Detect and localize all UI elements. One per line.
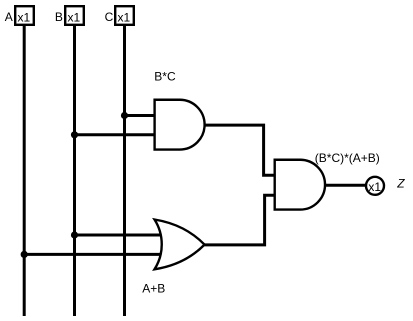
junction dot on wire B (OR) <box>71 231 78 238</box>
wire A vertical <box>23 26 26 317</box>
AND gate U3 <box>275 160 325 210</box>
wire C to AND1 top input <box>125 114 156 117</box>
wire U3 output to terminal Z <box>325 184 366 187</box>
input terminal C (x1 box) <box>115 6 134 25</box>
wire B to AND1 bottom input <box>75 133 156 136</box>
svg-text:(B*C)*(A+B): (B*C)*(A+B) <box>315 151 380 165</box>
wire B to OR top input <box>75 234 164 237</box>
OR gate U2 (A+B) <box>155 220 205 270</box>
AND gate U1 (B*C) <box>155 100 205 150</box>
wire AND1 output to U3 top input <box>205 125 275 175</box>
svg-text:Z: Z <box>396 176 405 190</box>
wire A to OR bottom input <box>24 253 163 256</box>
wire C vertical <box>123 26 126 317</box>
svg-text:B: B <box>55 10 63 24</box>
junction dot on wire A (OR) <box>21 251 28 258</box>
svg-text:A: A <box>5 10 13 24</box>
svg-text:x1: x1 <box>368 180 381 194</box>
svg-text:A+B: A+B <box>142 282 165 296</box>
svg-text:x1: x1 <box>18 11 31 25</box>
svg-text:C: C <box>105 10 114 24</box>
junction dot on wire C <box>121 112 128 119</box>
wire OR output to U3 bottom input <box>205 195 276 245</box>
svg-text:x1: x1 <box>118 11 131 25</box>
input terminal A (x1 box) <box>15 6 34 25</box>
wire B vertical <box>73 26 76 317</box>
junction dot on wire B <box>71 131 78 138</box>
svg-text:x1: x1 <box>68 11 81 25</box>
output terminal Z (x1 circle) <box>366 177 384 195</box>
svg-text:B*C: B*C <box>154 70 176 84</box>
input terminal B (x1 box) <box>65 6 84 25</box>
